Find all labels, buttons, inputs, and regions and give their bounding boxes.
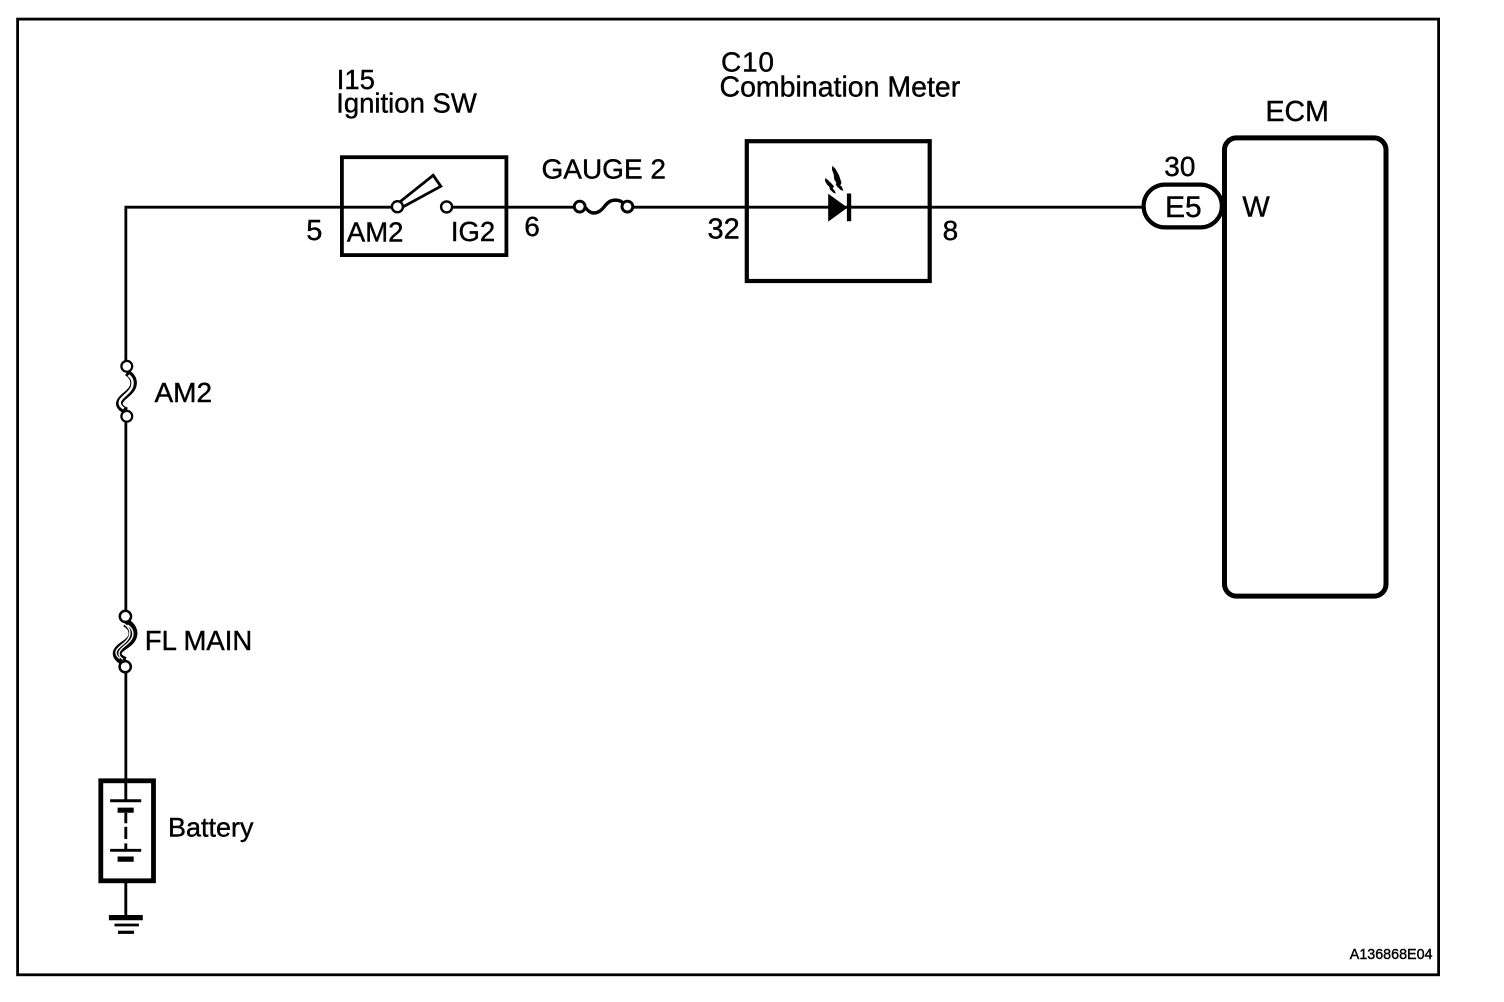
combination meter C10 label [720, 47, 961, 104]
svg-text:AM2: AM2 [155, 377, 213, 408]
svg-text:IG2: IG2 [451, 216, 495, 247]
svg-text:AM2: AM2 [347, 216, 404, 247]
svg-text:32: 32 [708, 213, 740, 245]
svg-text:8: 8 [943, 215, 959, 246]
wire: between AM2 fuse and FL MAIN fusible link [124, 421, 127, 612]
battery cell stem above bottom plates [124, 843, 127, 849]
wire: GAUGE 2 fuse through combination meter to ECM E5 [634, 206, 1144, 209]
wire: FL MAIN to battery [124, 671, 127, 780]
battery plate short (- top) [118, 808, 134, 813]
svg-text:Ignition SW: Ignition SW [336, 88, 477, 119]
wire: inside switch from IG2 contact to box right [451, 206, 506, 209]
connector E5 (stadium) [1144, 185, 1222, 228]
wire: inside switch from box left to AM2 contact [342, 206, 393, 209]
switch contact AM2 (pin 5) [392, 201, 403, 212]
svg-text:W: W [1242, 192, 1270, 224]
wire: battery negative to ground [124, 881, 127, 916]
svg-text:GAUGE 2: GAUGE 2 [542, 154, 666, 185]
ground symbol [109, 918, 143, 933]
fuse AM2 (fusible link) [119, 361, 133, 422]
light arrow left [825, 178, 836, 194]
battery internal lead from top [124, 781, 127, 800]
battery plate short (- bottom) [118, 856, 134, 861]
svg-text:E5: E5 [1165, 191, 1202, 224]
battery cell stem below top plates [124, 813, 127, 824]
svg-text:Battery: Battery [168, 813, 254, 843]
wire: switch IG2 to GAUGE 2 fuse [451, 206, 575, 209]
light arrow right [832, 166, 844, 191]
fuse GAUGE 2 element [574, 200, 633, 213]
svg-text:ECM: ECM [1266, 96, 1329, 128]
ignition switch I15 box [342, 157, 507, 255]
ECM box [1225, 138, 1387, 596]
LED indicator lamp (MIL) [825, 166, 851, 222]
svg-text:5: 5 [306, 215, 322, 247]
battery plate long (+ bottom) [110, 849, 141, 852]
svg-text:FL MAIN: FL MAIN [145, 625, 252, 656]
switch arm (lever) [400, 175, 441, 207]
wire: battery positive vertical + main horizontal feed to ignition switch [126, 207, 393, 362]
switch contact IG2 (pin 6) [441, 201, 452, 212]
cathode bar [847, 194, 851, 222]
fusible link FL MAIN [116, 611, 133, 673]
label I15 / Ignition SW [336, 64, 477, 119]
battery plate long (+ top) [110, 799, 141, 802]
battery box [101, 781, 154, 881]
svg-text:A136868E04: A136868E04 [1350, 947, 1433, 963]
battery dashed cell link [124, 827, 127, 839]
svg-text:30: 30 [1164, 151, 1195, 182]
combination meter box [747, 141, 930, 281]
svg-text:6: 6 [524, 211, 540, 242]
diode triangle [828, 194, 847, 222]
svg-text:Combination Meter: Combination Meter [720, 72, 961, 104]
